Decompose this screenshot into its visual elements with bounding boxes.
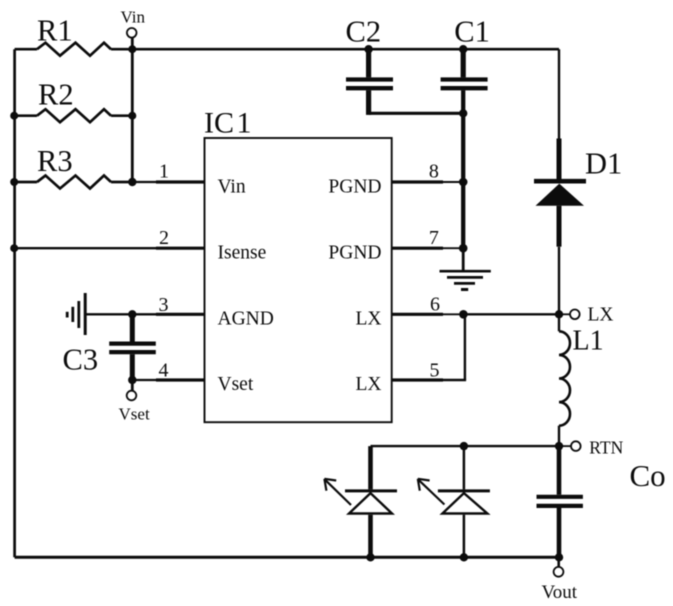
svg-text:Vin: Vin xyxy=(121,8,146,27)
node Vin (open terminal circle + label) xyxy=(121,8,146,50)
wire: pin 2 (Isense) from left rail to IC xyxy=(15,247,156,249)
svg-text:Isense: Isense xyxy=(218,242,267,263)
wire: pin 8 stub (PGND) xyxy=(392,180,443,183)
junction at Vin node / R1 right xyxy=(128,45,136,53)
wire: pin 7 stub (PGND) xyxy=(392,247,443,250)
svg-text:PGND: PGND xyxy=(328,242,381,263)
junction R3 left on rail xyxy=(10,178,18,186)
junction R2 right on column xyxy=(128,112,136,120)
svg-text:LX: LX xyxy=(356,374,382,395)
diode D1 xyxy=(534,139,622,247)
LED2 arrow xyxy=(419,480,445,504)
node LX (stub + open circle + label) xyxy=(559,305,614,326)
resistor R3 xyxy=(15,144,133,189)
svg-text:C2: C2 xyxy=(346,15,382,49)
junction Co bottom / Vout xyxy=(555,553,563,561)
ground PGND symbol (below C1 column) xyxy=(440,248,491,289)
junction pin4 / C3 bottom xyxy=(128,376,136,384)
svg-text:PGND: PGND xyxy=(328,176,381,197)
wire: LED top rail (RTN net) xyxy=(371,445,560,447)
svg-text:2: 2 xyxy=(159,227,169,249)
junction pin7 on C1 column xyxy=(459,244,468,253)
ground AGND symbol (rotated, left of pin 3) xyxy=(67,293,85,335)
svg-text:R2: R2 xyxy=(38,78,74,112)
svg-text:RTN: RTN xyxy=(589,437,623,457)
wire: bottom rail (Vout net) xyxy=(15,556,559,559)
wire: top rail left segment (Vin net) xyxy=(15,48,37,51)
wire: left vertical rail xyxy=(13,49,16,557)
svg-text:R3: R3 xyxy=(37,144,73,178)
wire: top rail from R1 to top-right corner xyxy=(111,48,559,51)
node Vout (stub + open circle + label) xyxy=(542,557,578,603)
junction C2 top on rail xyxy=(364,45,372,53)
junction pin6/pin5 xyxy=(459,310,468,319)
svg-text:Vset: Vset xyxy=(119,405,150,424)
wire: right rail D1 to coil xyxy=(558,247,560,332)
LED LED2 xyxy=(418,446,490,557)
junction pin3 / C3 top xyxy=(128,310,136,318)
junction LX on right rail xyxy=(555,310,563,318)
LED LED1 xyxy=(324,446,397,557)
svg-text:5: 5 xyxy=(430,360,440,382)
wire: pin 6 stub (LX) xyxy=(392,313,443,316)
capacitor C3 xyxy=(63,314,156,380)
junction LED1 bottom xyxy=(366,553,374,561)
svg-text:Co: Co xyxy=(630,458,666,493)
junction R3 right / pin1 xyxy=(128,178,136,186)
junction pin8 on C1 column xyxy=(459,178,468,187)
resistor R2 xyxy=(15,78,133,123)
svg-text:IC 1: IC 1 xyxy=(204,107,252,140)
junction LED2 bottom xyxy=(460,553,468,561)
wire: pin6 row to LX node xyxy=(463,313,559,315)
wire: coil to RTN row xyxy=(558,426,560,446)
svg-text:8: 8 xyxy=(429,161,439,183)
svg-text:D1: D1 xyxy=(585,147,622,181)
svg-text:AGND: AGND xyxy=(218,309,274,330)
svg-text:3: 3 xyxy=(159,294,169,316)
svg-text:Vout: Vout xyxy=(542,582,578,603)
junction LED2 top xyxy=(460,442,468,450)
junction R2 left on rail xyxy=(10,112,18,120)
LED1 arrow xyxy=(326,480,352,505)
svg-text:C1: C1 xyxy=(454,15,490,49)
svg-text:7: 7 xyxy=(429,227,439,249)
svg-text:Vin: Vin xyxy=(218,176,246,197)
capacitor C1 xyxy=(441,15,490,249)
IC U1 box: IC1 xyxy=(204,107,392,423)
capacitor Co xyxy=(537,446,666,557)
node RTN (stub + open circle + label) xyxy=(559,437,624,457)
wire: pin 4 (Vset) stub xyxy=(132,379,156,381)
capacitor C2 xyxy=(346,15,464,115)
resistor R1 xyxy=(37,13,111,55)
svg-text:L1: L1 xyxy=(573,326,604,357)
junction C2 bottom joins C1 column xyxy=(459,109,467,117)
svg-text:1: 1 xyxy=(159,161,169,183)
svg-text:Vset: Vset xyxy=(218,374,254,395)
junction C1 top on rail xyxy=(459,45,467,53)
wire: right rail top (corner to D1) xyxy=(558,49,560,138)
svg-text:4: 4 xyxy=(159,360,169,382)
svg-text:LX: LX xyxy=(356,309,382,330)
svg-text:R1: R1 xyxy=(37,13,73,47)
inductor L1 xyxy=(559,326,604,426)
junction pin2 on left rail xyxy=(10,244,18,252)
junction RTN on right rail xyxy=(555,442,563,450)
node Vset (open terminal circle + label) xyxy=(119,380,150,424)
wire: pin 3 (AGND) from ground to IC xyxy=(85,313,156,315)
wire: pin 5 stub (LX) + riser to pin6 row xyxy=(392,378,443,381)
svg-text:LX: LX xyxy=(588,305,614,326)
wire: middle column x=132 from Vin down to pin1 row xyxy=(131,49,134,182)
svg-text:6: 6 xyxy=(430,294,440,316)
wire: pin 1 stub to IC xyxy=(132,181,156,183)
svg-text:C3: C3 xyxy=(63,343,99,377)
